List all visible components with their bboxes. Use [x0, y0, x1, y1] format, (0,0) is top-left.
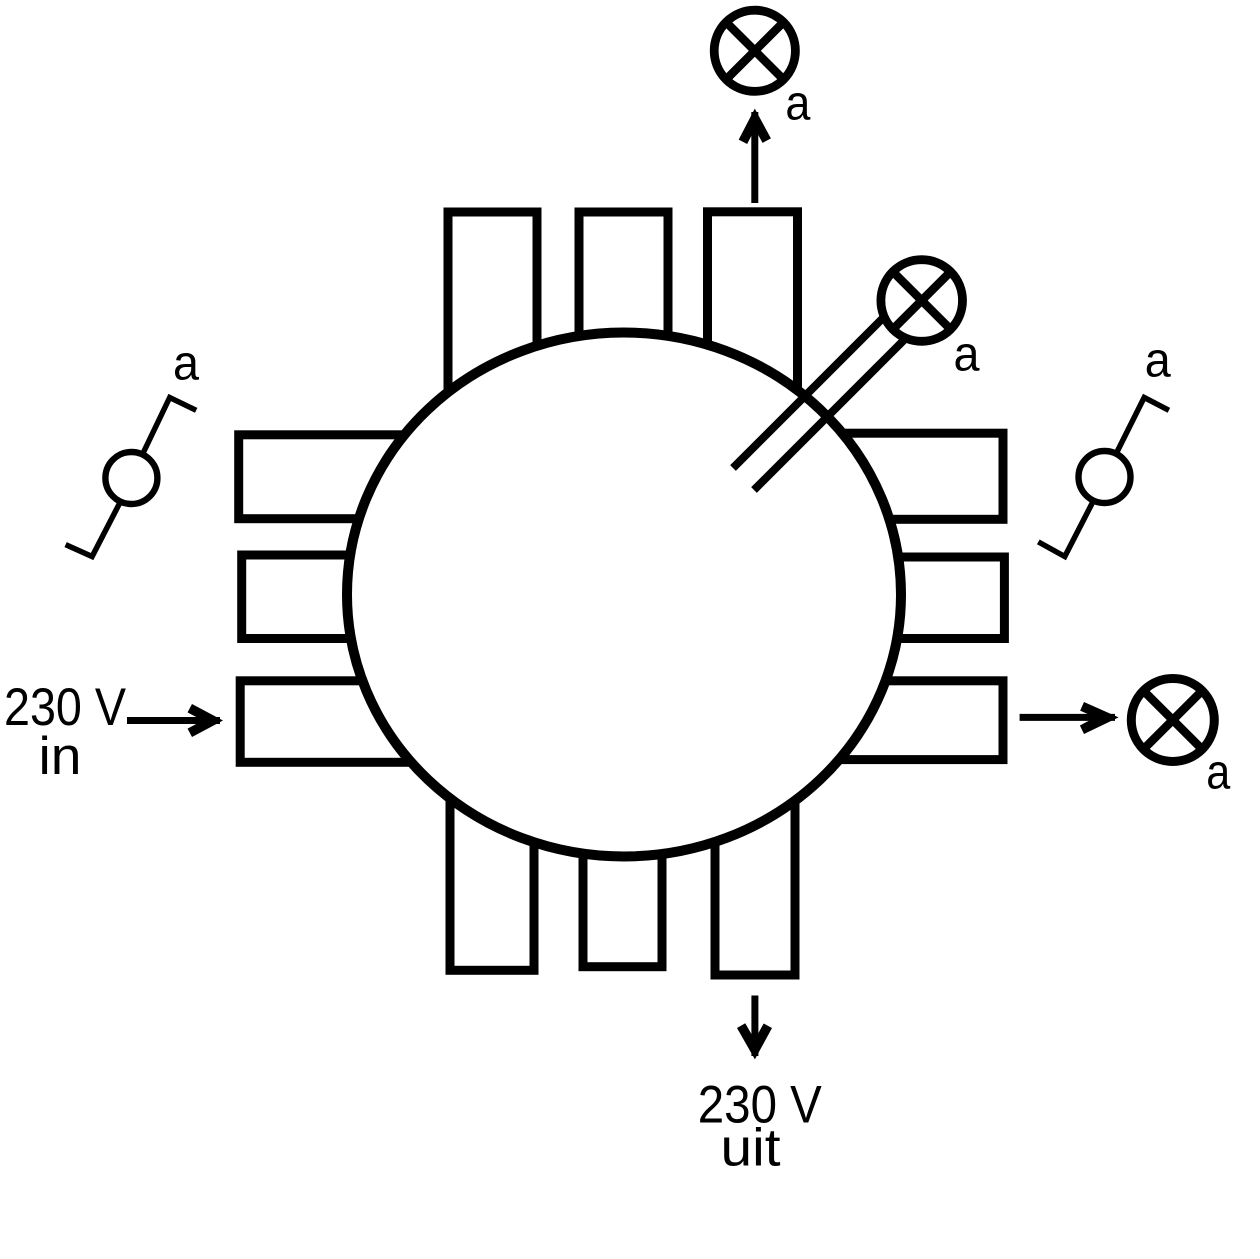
svg-text:a: a [1145, 334, 1172, 388]
wire (double cable) to lamp E2, line 1 [733, 298, 903, 468]
terminal pin top-right [708, 212, 798, 430]
arrow out to lamp E3 [1020, 702, 1119, 734]
svg-text:a: a [1206, 746, 1231, 800]
terminal pin bottom-right [715, 760, 795, 975]
terminal pin bottom-middle [583, 760, 662, 967]
svg-text:a: a [785, 76, 811, 130]
arrow in (230 V in) [127, 704, 223, 737]
terminal pin left-bottom (230V in) [240, 681, 430, 763]
arrow up to lamp E1 [739, 109, 771, 203]
switch S1 (left) [66, 398, 197, 557]
terminal pin top-left [448, 212, 537, 430]
lamp E2 (diagonal, top-right) [881, 260, 963, 342]
terminal pin right-top [820, 433, 1003, 519]
junction box body (ellipse) [347, 333, 901, 857]
terminal pin right-middle [820, 557, 1004, 639]
wire (double cable) to lamp E2, line 2 [754, 320, 924, 490]
terminal pin left-middle [242, 555, 430, 639]
svg-text:a: a [173, 336, 200, 390]
svg-text:a: a [954, 327, 981, 381]
arrow down (230 V uit) [737, 996, 772, 1060]
terminal pin right-bottom [820, 681, 1003, 760]
svg-text:uit: uit [721, 1119, 781, 1178]
lamp E1 (top) [714, 10, 795, 91]
svg-text:in: in [39, 727, 82, 786]
terminal pin bottom-left [450, 760, 534, 970]
terminal pin top-middle [579, 212, 668, 430]
terminal pin left-top [239, 435, 430, 519]
lamp E3 (right) [1131, 679, 1214, 762]
switch S2 (right) [1038, 398, 1169, 557]
